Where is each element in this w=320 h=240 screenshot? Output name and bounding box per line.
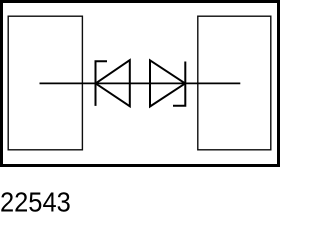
wire (40, 82, 241, 84)
right terminal pad (198, 16, 271, 150)
package outline (2, 2, 279, 166)
diode D1 (96, 60, 130, 106)
left terminal pad (8, 16, 82, 150)
value label 22543 (0, 186, 71, 217)
svg-text:22543: 22543 (0, 186, 71, 217)
diode D2 (150, 60, 185, 106)
